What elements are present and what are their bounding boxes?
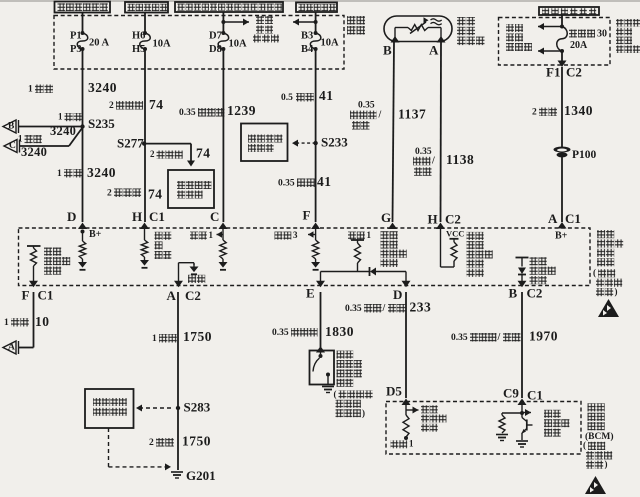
svg-text:3240: 3240 [50,124,76,138]
svg-text:10: 10 [35,314,50,329]
wire from connector C to S235 [20,145,70,147]
label box: powered in park [125,2,168,13]
svg-text:74: 74 [196,146,211,161]
pin A|C2 (ground) [174,281,183,288]
fuse D7/D8 10A [221,31,225,35]
module internal: left auto headlamp control resistor [27,245,41,247]
svg-text:0.35: 0.35 [278,178,295,188]
wire: fuse D7/D8 feed [222,12,224,33]
svg-text:H6: H6 [132,31,145,42]
svg-text:C2: C2 [445,212,461,227]
svg-text:1970: 1970 [529,329,558,344]
pin B|C2 (bottom) [518,281,527,288]
label 点火 3 with arrow [275,232,283,240]
svg-text:): ) [615,287,618,297]
svg-text:A: A [548,211,558,226]
parking brake indicator switch box [310,351,335,385]
splice S235 [80,124,84,128]
distribution schematic box (wire2 branch) 导线系统配电图 [168,170,214,208]
svg-text:F1: F1 [546,65,560,80]
svg-text:/: / [378,109,382,120]
svg-text:C2: C2 [527,286,543,301]
splice S283 with dashed arrow to ground distribution box [176,406,180,410]
svg-text:1: 1 [28,84,33,94]
wire from connector B to S235 [19,126,83,128]
svg-text:D: D [393,287,402,302]
svg-text:1137: 1137 [398,107,426,122]
label 点火 1 (BCM) [391,440,399,448]
wire: 0.35 orange/black 233 [405,292,407,398]
fuse block box (dashed) [54,16,344,70]
svg-text:D8: D8 [209,44,222,55]
label 环境光照传感器参照信号 [467,232,475,240]
svg-text:C2: C2 [185,288,201,303]
svg-text:/: / [382,303,386,314]
svg-text:3240: 3240 [21,145,47,159]
svg-text:3240: 3240 [88,80,117,95]
switch ground [322,386,334,388]
label box: powered at all times (right) [539,7,599,15]
BCM right label 车身控制模块(BCM)(固态未测算电阻) [588,403,596,411]
label 机罩下附件导线接线盒 [616,19,624,27]
svg-text:20 A: 20 A [89,38,110,49]
label 位置灯输入 [155,232,163,240]
svg-text:B4: B4 [301,44,314,55]
svg-text:2: 2 [532,107,537,117]
sensor internal circuit: photoresistor [394,28,396,39]
svg-text:74: 74 [148,187,163,202]
label 导线系统配电图 (right box) [506,24,514,32]
pin E [316,281,325,288]
transistor emitter ground [516,440,528,442]
ESD symbol (BCM) [585,476,606,494]
module internal: B+ node and resistor to ground [81,230,85,234]
svg-text:1830: 1830 [325,324,354,339]
svg-text:(: ( [593,268,596,278]
svg-text:/: / [497,332,501,343]
svg-text:B+: B+ [89,229,102,240]
wire: 0.35 pink/white 1970 [521,292,523,398]
svg-text:2: 2 [109,101,114,111]
page top edge artifact [0,0,640,2]
parking brake switch pin [316,346,325,353]
ground G201 [171,471,183,473]
off-page connector B [3,120,16,133]
fuse B3/B4 10A [314,31,318,35]
svg-text:P100: P100 [572,149,597,161]
svg-text:S235: S235 [88,116,115,131]
label 环境光照传感器输入 [381,231,389,239]
svg-text:10A: 10A [229,39,248,50]
svg-text:0.35: 0.35 [358,100,375,110]
fuse block label 熔断器盒 [347,16,356,25]
label 点火 1 (pull-up) [348,232,356,240]
svg-text:D: D [67,209,76,224]
label 自动前大灯连接 (module) [530,257,538,265]
svg-text:P1: P1 [70,31,82,42]
svg-text:1239: 1239 [227,103,256,118]
diode (pointing left) [369,267,371,276]
svg-text:1750: 1750 [182,434,211,449]
label 搭铁 [188,275,196,283]
svg-text:0.5: 0.5 [281,93,293,103]
svg-text:/: / [431,156,435,167]
module internal: horizontal bus E—D with diode [321,271,370,273]
svg-text:41: 41 [317,174,332,189]
svg-text:1750: 1750 [183,329,212,344]
svg-text:B3: B3 [301,31,313,42]
wire: sensor B to module pin G [393,42,395,222]
svg-text:H: H [428,212,438,227]
svg-text:20A: 20A [570,40,588,51]
fuse H6/H5 10A [143,31,147,35]
svg-text:G201: G201 [186,468,216,483]
off-page connector A [3,341,16,354]
svg-text:B: B [509,286,518,301]
wire: fuse H6/H5 feed [144,13,146,34]
svg-text:A: A [167,288,177,303]
svg-text:1: 1 [152,334,157,344]
ESD symbol (headlamp module) [598,299,619,317]
body control module (BCM) box (dashed) [386,402,581,455]
svg-text:A: A [429,43,439,58]
underhood junction block (dashed) [499,18,611,66]
node: top junction on B3 wire, arrow left [314,20,318,24]
svg-text:3: 3 [293,230,298,240]
svg-text:C1: C1 [149,209,165,224]
wire: battery feed into junction block [561,15,563,27]
svg-text:H5: H5 [132,44,145,55]
svg-text:74: 74 [149,97,164,112]
svg-text:C: C [9,141,16,151]
fuse 熔断器 30 20A [560,25,564,29]
wire: 1 yellow 10 to connector A [33,292,35,348]
svg-text:2: 2 [107,188,112,198]
switch contacts and blade [320,351,322,355]
splice S233 with dashed arrow to distribution box [313,141,317,145]
svg-text:C1: C1 [565,211,581,226]
module right label 自动前大灯控制模块(固态未测算电阻) [597,230,605,238]
sensor pin A [437,36,446,43]
svg-text:0.35: 0.35 [451,333,468,343]
arrow to distribution schematic (lower) [538,50,562,52]
svg-text:C: C [210,209,219,224]
svg-text:(: ( [583,440,586,450]
svg-text:1: 1 [409,439,414,449]
svg-text:F: F [22,288,30,303]
BCM internal: auto headlamp driver [521,404,523,413]
module internal: auto headlamp connection stub with diode [516,257,529,259]
label box: powered in run/headlamp test or start [175,2,283,12]
module internal: ignition1 resistor [222,228,224,240]
svg-text:G: G [381,210,391,225]
svg-text:S233: S233 [321,135,348,150]
photoresistor arrow [410,22,426,34]
arrow to distribution schematic (upper) [538,26,562,28]
svg-text:1: 1 [209,230,214,240]
svg-text:B+: B+ [555,230,568,241]
svg-text:C9: C9 [503,386,519,401]
svg-text:2: 2 [150,149,155,159]
BCM internal: parking brake input [405,404,407,415]
ground distribution box 导线系统搭铁分配 [85,389,134,428]
svg-text:0.35: 0.35 [345,304,362,314]
wire: fuse P1/P3 feed [82,13,84,34]
dashed route from box to G201 [108,428,110,467]
svg-text:D5: D5 [386,384,402,399]
node: top junction on D7 wire, arrow to distribution schematic [221,20,225,24]
label 点火 1 with arrow [190,232,198,240]
label box: powered at all times (left) [55,2,111,13]
label 自动前大灯控制 (internal) [44,248,52,256]
module internal: position lamp input resistor [144,228,146,240]
label 驻车制动器输入 [421,405,429,413]
label 驻车制动器指示器开关 [337,351,345,359]
svg-text:1: 1 [18,134,23,144]
module internal: ignition1 pull-up with T-bar [351,239,364,241]
wire: 0.35 light blue 1830 [320,292,322,347]
sensor pin B [391,36,400,43]
fuse P1/P3 20A [81,31,85,35]
svg-text:0.35: 0.35 [415,147,432,157]
label 自动前大灯连接 (BCM) [544,410,552,418]
label 环境光照传感器 [457,17,466,26]
svg-text:B: B [383,43,392,58]
wire: sensor A to module pin H|C2 [440,42,443,222]
svg-text:C1: C1 [38,288,54,303]
label 导线系统配电图 (top) [256,16,264,24]
ambient light sensor 环境光照传感器 (stadium outline) [384,16,452,42]
svg-text:1138: 1138 [446,152,474,167]
label box: powered in run [296,3,337,13]
module internal: ignition3 resistor [315,228,317,240]
wire: fuse B3/B4 feed [315,12,317,33]
svg-text:1: 1 [57,169,62,179]
svg-text:C1: C1 [527,388,543,403]
svg-text:B: B [8,122,15,132]
svg-text:10A: 10A [321,38,340,49]
svg-text:1: 1 [367,230,372,240]
svg-text:F: F [303,208,311,223]
svg-text:0.35: 0.35 [179,108,196,118]
distribution schematic box (S233) 导线系统配电图 [241,124,288,162]
svg-text:H: H [132,209,142,224]
BCM internal: pull resistor to ground [502,412,522,414]
svg-text:3240: 3240 [87,165,116,180]
svg-text:1: 1 [4,318,9,328]
svg-text:1: 1 [58,112,63,122]
BCM internal: transistor Q [521,413,523,418]
svg-text:C2: C2 [566,65,582,80]
svg-text:S277: S277 [117,136,144,151]
svg-text:S283: S283 [184,400,211,415]
svg-text:E: E [306,286,315,301]
svg-text:A: A [8,343,15,353]
splice S277 [142,141,146,145]
svg-text:41: 41 [319,88,334,103]
svg-text:1340: 1340 [564,103,593,118]
grommet P100 [554,147,571,153]
module internal: ground link for pin A|C2 [178,263,180,281]
svg-text:): ) [362,408,365,418]
pin D (bottom) [402,281,411,288]
svg-text:D7: D7 [209,31,222,42]
svg-text:): ) [605,459,608,469]
wire: 1 black 1750 [177,292,179,470]
pin F|C1 (bottom) [29,281,38,288]
svg-text:30: 30 [597,28,607,39]
svg-text:VCC: VCC [446,229,464,239]
automatic headlamp control module box (dashed) [19,228,591,286]
pin F1|C2 [558,61,567,68]
off-page connector C [4,140,17,153]
wire: 2 orange 1340 [561,67,563,222]
svg-text:10A: 10A [153,39,172,50]
svg-text:0.35: 0.35 [272,328,289,338]
svg-text:(BCM): (BCM) [585,431,614,442]
svg-text:(: ( [334,389,337,399]
svg-text:P3: P3 [70,44,82,55]
svg-text:233: 233 [410,300,432,315]
module internal: E branch down [320,272,322,282]
svg-text:2: 2 [149,438,154,448]
wire branch from S277 to distribution box [144,143,191,145]
